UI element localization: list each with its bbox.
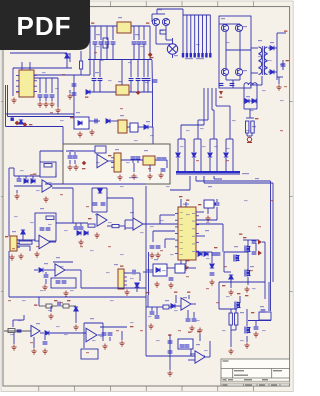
wire (50, 332, 86, 334)
wire (18, 176, 20, 178)
MOSFET Q10 (245, 246, 251, 253)
diode D31 (red) (136, 90, 141, 95)
power rail wire (88, 59, 152, 61)
feedback loop wires (40, 162, 56, 177)
voltage regulator VR1 (117, 22, 131, 33)
transistor Q1 (152, 18, 159, 25)
capacitor C29 (150, 246, 155, 248)
capacitor C47 (185, 345, 190, 347)
wire (216, 199, 218, 202)
wire (45, 78, 47, 93)
designator text (44, 263, 48, 264)
net label (67, 300, 70, 301)
wire (133, 26, 135, 40)
diode D32 (red) (219, 91, 223, 95)
wire (133, 163, 135, 172)
wire bus (8 verticals) (183, 15, 210, 53)
transistor Q5 (221, 68, 228, 75)
ground (167, 371, 172, 377)
net label (222, 285, 225, 286)
wire (125, 227, 133, 229)
wire (181, 124, 204, 126)
wire (178, 138, 185, 140)
wire (183, 14, 211, 16)
wire (106, 188, 108, 212)
wire (13, 67, 72, 69)
wire (196, 219, 217, 221)
wire (230, 279, 232, 288)
wire (143, 223, 178, 225)
diode D10 (224, 153, 228, 157)
capacitor C60 (252, 252, 257, 254)
wire (226, 79, 240, 81)
net label (174, 292, 177, 293)
net label (186, 200, 189, 201)
wire (92, 211, 107, 213)
transistor Q4 (235, 24, 242, 31)
wire (164, 239, 166, 248)
transformer T1 (259, 46, 268, 75)
capacitor C21b (136, 157, 141, 159)
wire (50, 306, 52, 312)
wire (188, 295, 190, 299)
wire (165, 26, 167, 40)
capacitor C10 (142, 42, 147, 44)
power rail wire (90, 25, 150, 27)
resistor R6 (44, 164, 52, 168)
wire (230, 309, 232, 313)
long wire (45, 183, 146, 185)
wire (216, 139, 218, 171)
wire (196, 235, 205, 237)
long wire (146, 355, 205, 357)
ground (9, 255, 14, 261)
wire (247, 277, 249, 285)
wire (255, 321, 257, 326)
bus hatch (176, 174, 240, 175)
resistor R2 (160, 30, 166, 34)
net label (29, 124, 32, 125)
wire (16, 190, 18, 193)
net label (197, 331, 200, 332)
net label (21, 123, 24, 124)
diode D30 (86, 90, 90, 94)
wire (110, 120, 118, 122)
wire (200, 139, 202, 171)
ground (168, 283, 173, 289)
capacitor C20b (131, 157, 136, 159)
wire (224, 251, 248, 253)
resistor R13 (8, 329, 15, 333)
wire (55, 172, 57, 177)
wire (278, 77, 280, 84)
power rail wire (129, 91, 152, 93)
wire (261, 76, 263, 85)
wire (247, 252, 249, 270)
ground (43, 102, 48, 108)
wire (251, 72, 258, 74)
wire (143, 26, 145, 40)
wire (dark) (69, 305, 76, 307)
op-amp A3 (97, 214, 107, 226)
wire (62, 127, 64, 145)
wire (244, 100, 257, 102)
optocoupler U2 (74, 117, 89, 129)
diode D3 (270, 46, 274, 50)
diode D22 (45, 331, 49, 335)
connector J1 (10, 236, 20, 251)
ground (209, 280, 214, 286)
wire (45, 97, 47, 101)
wire (75, 223, 77, 226)
wire (180, 125, 182, 139)
wire (89, 120, 100, 122)
PDF badge (0, 0, 90, 50)
wire (6, 113, 75, 115)
feedback loop wires (35, 213, 56, 241)
capacitor C62 (216, 253, 221, 255)
wire (207, 208, 209, 214)
wire (14, 175, 40, 177)
wire (119, 225, 125, 227)
wire (209, 139, 211, 152)
wire (282, 60, 284, 70)
wire (157, 8, 183, 10)
ground (78, 240, 83, 246)
op-amp A5 (55, 264, 65, 276)
net label (186, 260, 189, 261)
wire (102, 323, 104, 330)
capacitor C56 (153, 80, 158, 82)
wire (8, 116, 75, 118)
wire (94, 44, 96, 60)
wire (137, 60, 139, 78)
wire (175, 295, 177, 303)
capacitor C3 (50, 95, 55, 97)
wire (214, 203, 216, 205)
component box U9 (178, 339, 193, 349)
IC U4 (111, 153, 121, 172)
net label (219, 97, 222, 98)
wire (156, 307, 158, 315)
IC U5 (PWM controller) (175, 207, 199, 260)
ground (89, 130, 94, 136)
wire (177, 139, 179, 152)
wire (138, 26, 140, 40)
wire (155, 159, 167, 161)
capacitor C32 (210, 273, 215, 275)
wire (69, 152, 71, 155)
resistor R9 (88, 224, 95, 227)
wire (152, 92, 154, 127)
wire (229, 106, 231, 139)
long wire (270, 181, 272, 311)
wire (188, 359, 195, 361)
capacitor C64 (101, 203, 106, 205)
net label (179, 196, 182, 197)
resistor R15 (229, 313, 232, 325)
designator text (146, 121, 150, 122)
connector J2 (118, 269, 127, 289)
wire (185, 202, 187, 207)
op-amp A2 (39, 235, 50, 249)
wire (139, 273, 141, 281)
diode D36 (198, 252, 202, 256)
wire (29, 62, 31, 70)
wire (130, 60, 132, 78)
capacitor C22c (161, 169, 166, 171)
wire (40, 150, 63, 152)
net label (146, 292, 149, 293)
designator text (240, 312, 244, 313)
ground (244, 343, 249, 349)
capacitor C51 (98, 79, 103, 81)
wire (197, 120, 199, 139)
MOSFET Q7 (235, 302, 241, 309)
capacitor C35 (56, 281, 61, 283)
diode D39 (19, 120, 23, 124)
wire (230, 325, 232, 347)
wire (124, 272, 132, 274)
ground (11, 345, 16, 351)
wire (210, 138, 217, 140)
ground (63, 291, 68, 297)
wire (99, 60, 101, 78)
op-amp A9 (195, 351, 205, 363)
resistor R7 (46, 216, 54, 220)
net label (33, 174, 36, 175)
wire (268, 282, 270, 311)
wire (45, 272, 47, 274)
wire (121, 331, 123, 340)
capacitor C8 (132, 42, 137, 44)
wire (17, 245, 30, 247)
wire (214, 178, 222, 180)
wire (247, 135, 252, 137)
wire (dark) (4, 330, 31, 332)
wire (51, 78, 53, 93)
capacitor C23 (17, 179, 22, 181)
wire (83, 323, 85, 348)
wire (102, 330, 104, 341)
inductor bank L1 (182, 53, 212, 58)
capacitor C2 (44, 95, 49, 97)
ground (178, 265, 183, 271)
wire (112, 26, 114, 40)
wire (219, 281, 265, 283)
wire (244, 108, 257, 110)
wire (143, 81, 145, 93)
transistor Q3 (221, 24, 228, 31)
wire (268, 47, 270, 49)
wire (100, 44, 102, 60)
wire (155, 26, 157, 44)
wire (232, 80, 234, 88)
wire (276, 33, 278, 80)
designator text (95, 72, 99, 73)
wire (156, 43, 172, 45)
net label (146, 23, 149, 24)
wire (213, 176, 215, 179)
wire (22, 234, 24, 240)
wire (204, 182, 273, 184)
wire (180, 260, 182, 264)
wire (130, 81, 132, 93)
wire (175, 305, 181, 307)
wire (207, 88, 209, 120)
diode D7 (176, 153, 180, 157)
wire (14, 185, 42, 187)
diode D33 (229, 275, 233, 279)
relay module outline (63, 144, 170, 184)
wire (218, 282, 220, 309)
wire (196, 223, 223, 225)
power rail wire (86, 91, 116, 93)
designator text (36, 323, 40, 324)
wire (235, 325, 237, 330)
wire (108, 160, 114, 162)
wire (5, 85, 7, 127)
wire (138, 44, 140, 60)
wire (185, 260, 187, 264)
wire (106, 26, 108, 40)
diode D2 (148, 52, 153, 57)
ground (43, 197, 48, 203)
inductor L2 (244, 83, 257, 85)
wire (166, 160, 168, 168)
capacitor C24 (40, 228, 45, 230)
designator text (258, 40, 262, 41)
wire (80, 51, 82, 61)
wire (225, 32, 227, 68)
ground (228, 290, 233, 296)
wire (256, 85, 258, 109)
long wire (272, 183, 274, 282)
designator text (260, 306, 264, 307)
wire (107, 225, 112, 227)
ground (183, 265, 188, 271)
capacitor C34 (44, 275, 49, 277)
wire (172, 38, 174, 44)
capacitor C22b (162, 158, 167, 160)
voltage regulator VR3 (116, 85, 129, 95)
wire (132, 159, 134, 163)
wire (91, 188, 93, 212)
wire (211, 252, 213, 263)
wire (72, 188, 74, 223)
wire (169, 306, 171, 308)
resistor R3 (246, 121, 249, 133)
wire (216, 207, 218, 220)
capacitor C67 (72, 84, 77, 86)
diode D9 (208, 153, 212, 157)
diode D6 (252, 99, 256, 103)
capacitor C45 (168, 341, 173, 343)
wire (156, 9, 158, 14)
relay K2 coil box (259, 312, 271, 320)
wire (45, 279, 47, 284)
designator text (144, 150, 148, 151)
transistor Q2 (162, 18, 169, 25)
net label (251, 312, 254, 313)
wire (13, 333, 15, 344)
wire (57, 78, 59, 90)
wire (133, 44, 135, 60)
ground (149, 253, 154, 259)
wire (246, 309, 248, 326)
diode D11 (106, 119, 110, 123)
component K1 (130, 123, 138, 132)
component box U6 (204, 200, 214, 208)
designator text (246, 96, 250, 97)
voltage regulator VR2 (143, 156, 155, 165)
capacitor C55 (146, 79, 151, 81)
wire (49, 241, 56, 243)
wire (195, 176, 197, 181)
wire (203, 88, 205, 125)
ground (31, 349, 36, 355)
designator text (185, 58, 193, 59)
wire (33, 337, 35, 348)
wire (224, 271, 231, 273)
designator text (56, 257, 60, 258)
ground (55, 108, 60, 114)
ground (73, 165, 78, 171)
wire (146, 306, 148, 308)
wire (147, 295, 149, 307)
feedback loop wires (95, 146, 106, 153)
net label (54, 300, 57, 301)
ground (244, 287, 249, 293)
wire (100, 26, 102, 40)
wire (190, 349, 192, 356)
op-amp A10 (97, 154, 108, 168)
wire (138, 126, 144, 128)
net label (82, 168, 85, 169)
wire (143, 60, 145, 78)
wire (6, 126, 64, 128)
wire (23, 315, 25, 320)
capacitor C41 (150, 312, 155, 314)
capacitor C59 (252, 241, 257, 243)
designator text (270, 42, 274, 43)
designator text (250, 266, 254, 267)
wire (74, 160, 76, 164)
wire (209, 341, 211, 357)
wire (99, 81, 101, 93)
designator text (255, 178, 259, 179)
wire (169, 334, 171, 370)
resistor R11 (46, 304, 52, 308)
wire (170, 189, 190, 191)
capacitor C57 (219, 84, 224, 86)
capacitor C61 (212, 253, 217, 255)
capacitor C30 (156, 246, 161, 248)
wire (196, 180, 271, 182)
ground (34, 252, 39, 258)
diode D15 (21, 230, 25, 234)
designator text (205, 230, 209, 231)
capacitor C1 (38, 95, 43, 97)
wire (66, 58, 68, 68)
wire (84, 322, 103, 324)
designator text (135, 34, 139, 35)
wire (211, 88, 213, 110)
capacitor C49 (168, 351, 173, 353)
secondary bus bar (176, 171, 240, 174)
wire (13, 168, 15, 176)
wire (189, 176, 191, 190)
